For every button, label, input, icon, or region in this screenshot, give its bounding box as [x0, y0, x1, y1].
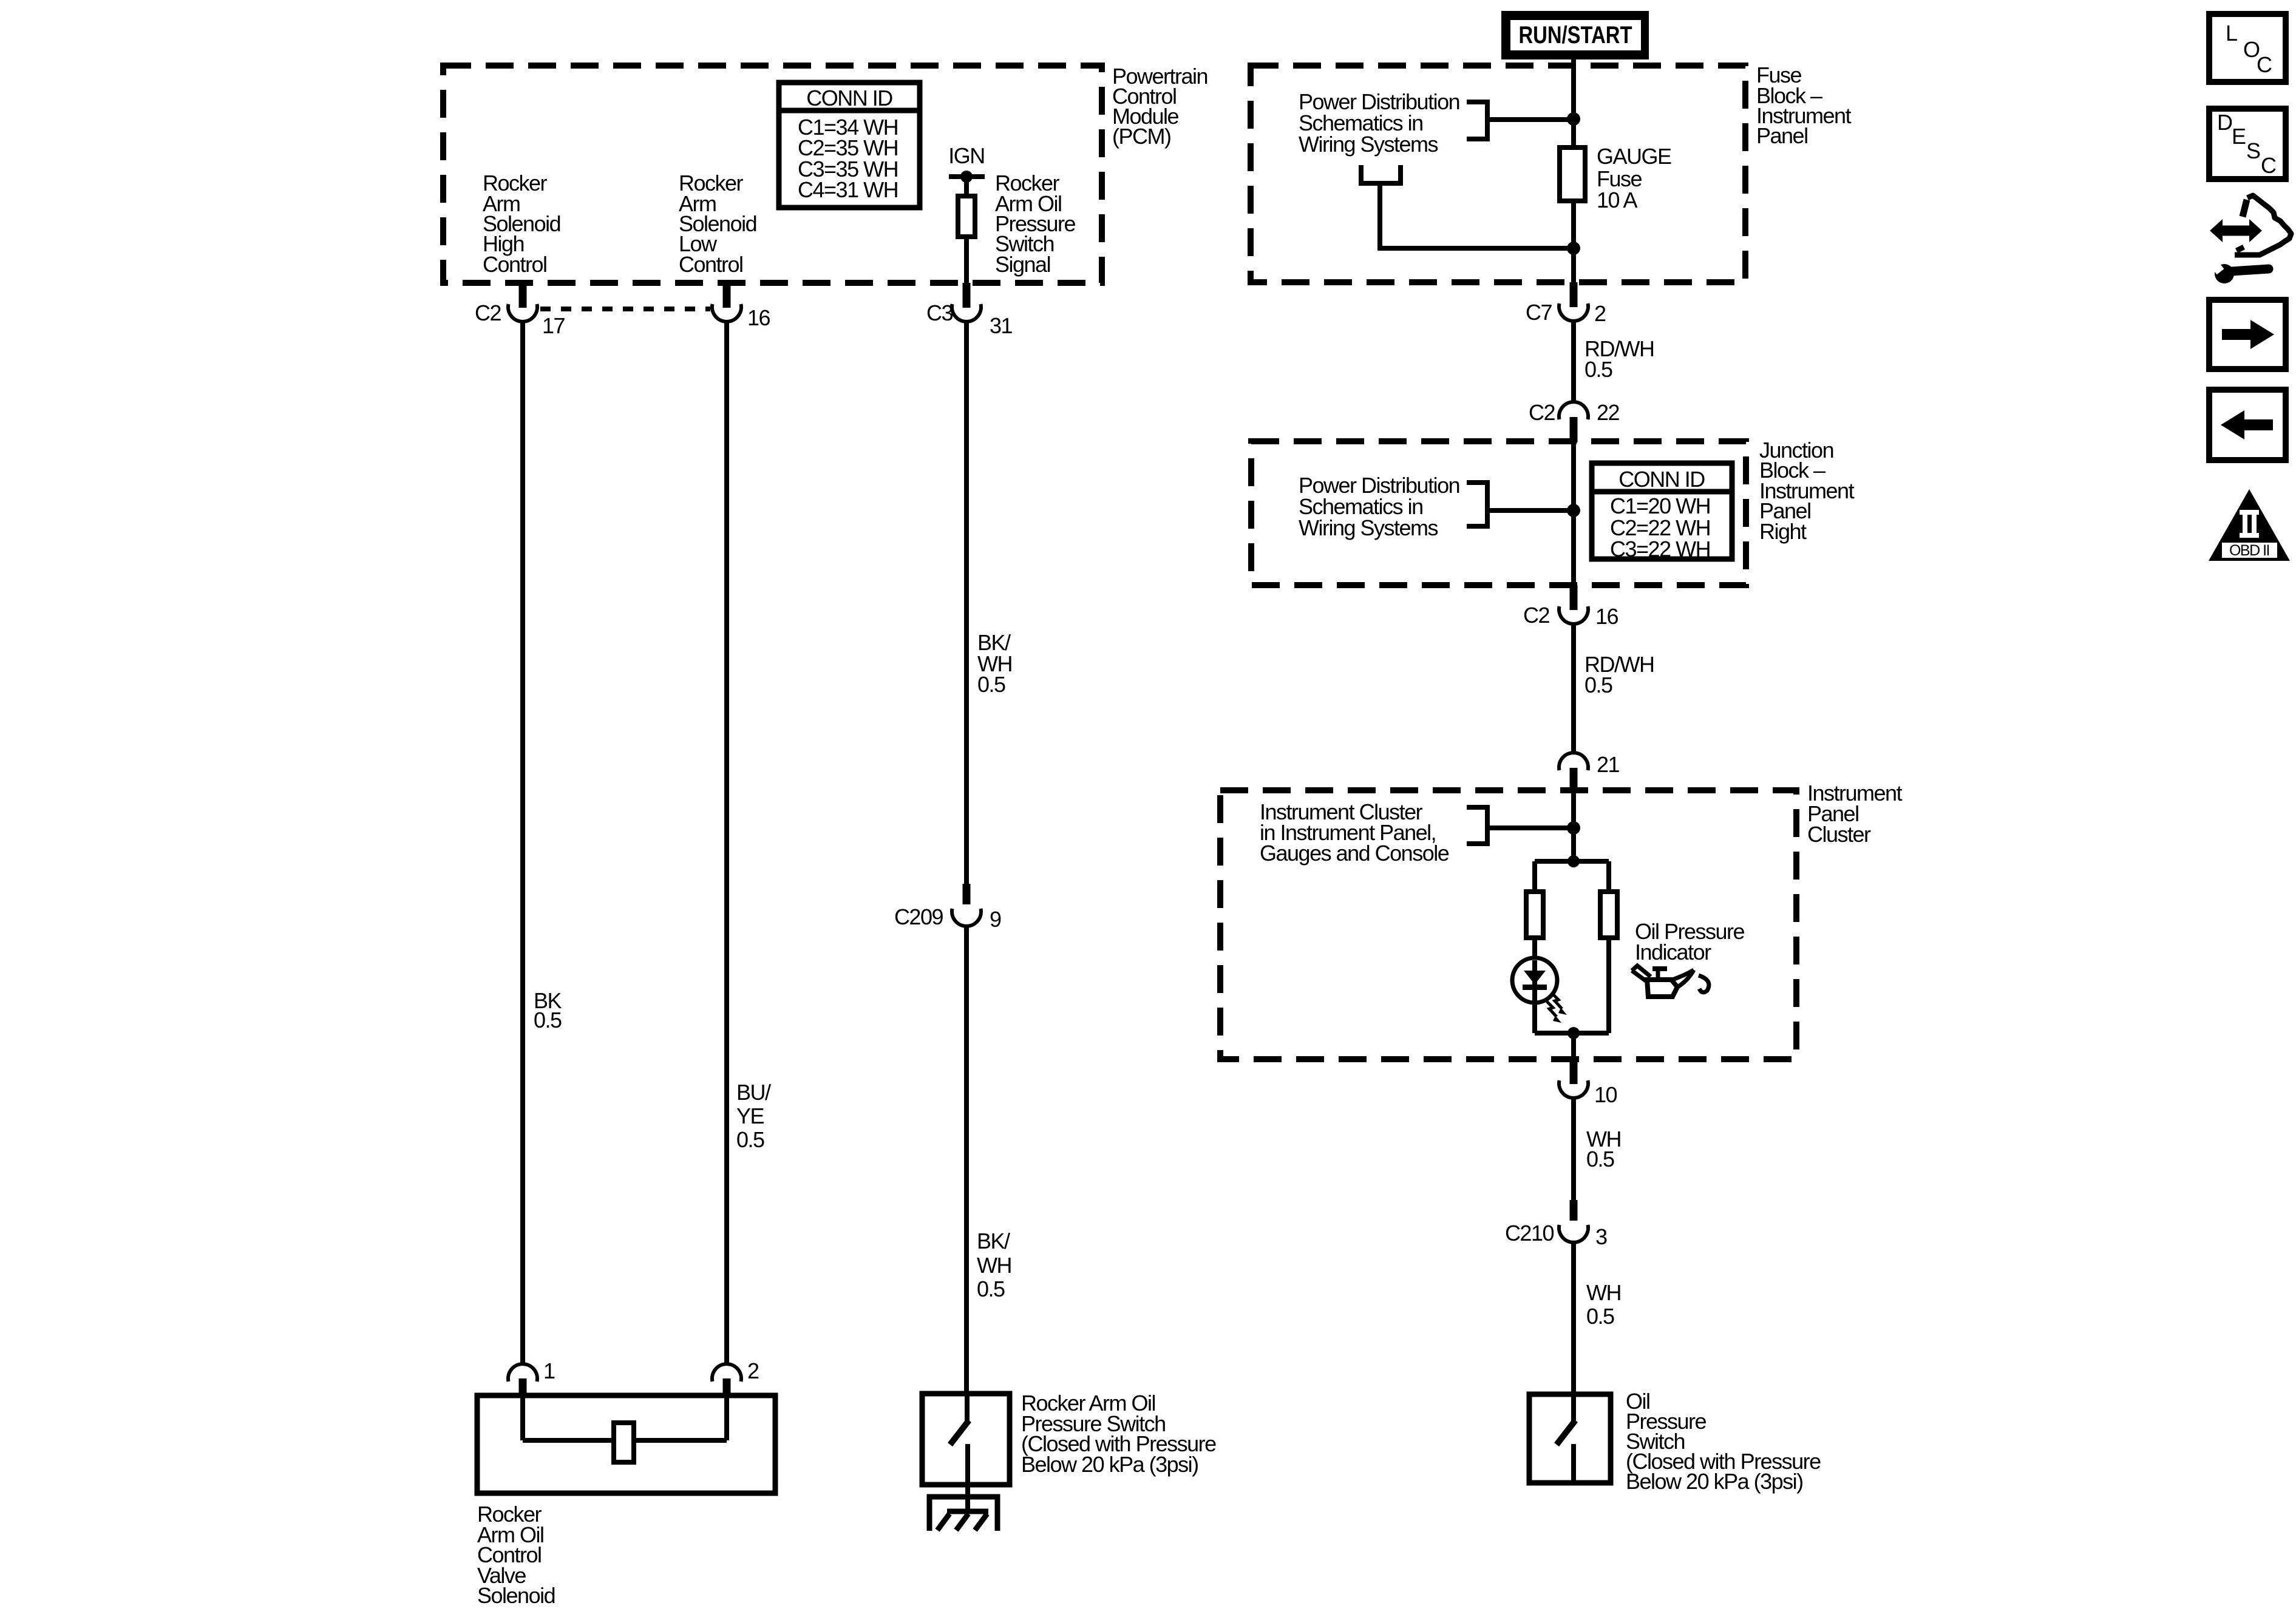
- svg-text:2: 2: [747, 1358, 759, 1383]
- svg-text:Indicator: Indicator: [1635, 940, 1711, 964]
- svg-text:22: 22: [1597, 400, 1620, 425]
- svg-text:C209: C209: [894, 904, 943, 929]
- switch lower contact lead to ground: [965, 1444, 970, 1511]
- connector pin 2 (solenoid): [712, 1364, 741, 1381]
- LED light arrows: [1552, 994, 1562, 1009]
- svg-text:RUN/START: RUN/START: [1519, 21, 1632, 49]
- diagnostic tool icon (arrow, part outline, wrench): [2221, 226, 2252, 236]
- svg-text:WH: WH: [977, 1253, 1011, 1278]
- svg-text:17: 17: [542, 313, 565, 338]
- svg-text:IGN: IGN: [948, 143, 985, 168]
- svg-text:Right: Right: [1759, 519, 1807, 544]
- svg-text:2: 2: [1594, 301, 1606, 326]
- svg-text:0.5: 0.5: [534, 1008, 562, 1032]
- junction node (cluster feed): [1567, 821, 1580, 835]
- svg-text:Solenoid: Solenoid: [477, 1583, 555, 1608]
- junction node (junction block): [1567, 504, 1580, 517]
- wire through junction block: [1571, 442, 1576, 585]
- solenoid coil element: [614, 1423, 634, 1462]
- svg-text:31: 31: [990, 313, 1013, 338]
- connector C3 pin 31 (PCM): [963, 283, 971, 308]
- connector pin 10 (cluster bottom): [1570, 1059, 1578, 1084]
- svg-text:(PCM): (PCM): [1112, 124, 1170, 149]
- wire from RUN/START into fuse block: [1571, 59, 1576, 147]
- solenoid internal wire pin1: [520, 1397, 525, 1440]
- Oil Pressure Switch box: [1529, 1394, 1611, 1483]
- svg-text:L: L: [2226, 21, 2237, 46]
- lamp network bottom bar: [1535, 1031, 1609, 1036]
- svg-text:BU/: BU/: [736, 1080, 771, 1105]
- wire bottom bar to connector 10: [1571, 1033, 1576, 1059]
- ground symbol: [929, 1497, 997, 1531]
- svg-text:3: 3: [1595, 1224, 1607, 1249]
- wire into lamp network: [1571, 792, 1576, 861]
- solenoid internal wire pin2: [724, 1397, 729, 1440]
- wire BK/WH from C209 to pressure switch: [964, 926, 969, 1395]
- Junction Block - Instrument Panel Right dashed box: [1251, 441, 1746, 585]
- svg-text:C210: C210: [1505, 1221, 1554, 1246]
- solenoid internal horizontal wire: [523, 1438, 727, 1443]
- svg-text:Signal: Signal: [995, 252, 1050, 277]
- wire WH connector10 to C210: [1571, 1097, 1576, 1200]
- Fuse Block - Instrument Panel dashed box: [1251, 66, 1745, 282]
- CONN ID table (PCM): [779, 83, 920, 208]
- CONN ID table (junction block): [1592, 463, 1732, 559]
- svg-text:C3=22 WH: C3=22 WH: [1610, 537, 1710, 561]
- svg-text:OBD II: OBD II: [2229, 542, 2269, 559]
- switch top contact lead (oil pressure switch): [1571, 1394, 1576, 1421]
- svg-text:Cluster: Cluster: [1807, 822, 1871, 847]
- svg-text:Below 20 kPa (3psi): Below 20 kPa (3psi): [1626, 1469, 1803, 1494]
- connector C7 pin 2: [1570, 282, 1578, 307]
- svg-text:Gauges and Console: Gauges and Console: [1260, 841, 1449, 866]
- wire BK from C2-17 to solenoid pin 1: [520, 321, 525, 1365]
- connector C2 pin 22 (junction block): [1559, 402, 1588, 419]
- svg-text:Panel: Panel: [1756, 123, 1808, 148]
- bracket to note (fuse block upper): [1467, 102, 1487, 139]
- bracket to note (cluster): [1467, 807, 1487, 844]
- switch blade (oil pressure switch): [1557, 1420, 1575, 1445]
- LED diode symbol: [1532, 960, 1537, 1002]
- svg-text:16: 16: [747, 305, 770, 330]
- svg-text:S: S: [2246, 138, 2260, 163]
- junction node below fuse: [1567, 242, 1580, 255]
- wire RD/WH C7 to junction block: [1571, 320, 1576, 402]
- resistor inside PCM (switch signal pull-up): [964, 177, 969, 196]
- svg-text:16: 16: [1595, 604, 1618, 629]
- svg-text:C1=20 WH: C1=20 WH: [1610, 493, 1710, 518]
- connector pin 21 (cluster): [1559, 753, 1588, 770]
- svg-text:0.5: 0.5: [1586, 1147, 1614, 1171]
- svg-text:0.5: 0.5: [736, 1127, 764, 1152]
- svg-text:Wiring Systems: Wiring Systems: [1299, 132, 1438, 157]
- junction node above fuse: [1567, 112, 1580, 126]
- svg-text:GAUGE: GAUGE: [1597, 144, 1671, 169]
- power feed RUN/START box: [1501, 11, 1649, 59]
- svg-text:0.5: 0.5: [977, 672, 1005, 697]
- LOC icon box: [2209, 14, 2286, 82]
- LED indicator (circle): [1512, 958, 1557, 1003]
- svg-text:Control: Control: [679, 252, 743, 277]
- bracket under note (fuse block lower): [1361, 165, 1401, 183]
- wire BU/YE from C2-16 to solenoid pin 2: [724, 321, 729, 1365]
- connector pin 1 (solenoid): [508, 1364, 537, 1381]
- left branch resistor: [1532, 861, 1537, 892]
- svg-text:YE: YE: [736, 1103, 764, 1128]
- Powertrain Control Module (PCM) dashed box: [443, 66, 1102, 283]
- bracket to note (junction block): [1467, 483, 1487, 526]
- oil can icon: [1632, 966, 1651, 977]
- svg-text:C4=31 WH: C4=31 WH: [798, 177, 898, 202]
- svg-text:9: 9: [990, 907, 1001, 932]
- connector C2 pin 16 (junction block): [1570, 585, 1578, 610]
- svg-text:CONN ID: CONN ID: [806, 86, 892, 110]
- svg-text:C2: C2: [475, 300, 501, 325]
- svg-text:BK/: BK/: [977, 1229, 1010, 1253]
- svg-text:C3: C3: [926, 300, 953, 325]
- DESC icon box: [2209, 109, 2286, 179]
- switch blade: [950, 1420, 969, 1445]
- switch top contact lead: [965, 1394, 970, 1421]
- connector C209 pin 9: [963, 884, 971, 904]
- back arrow icon box: [2209, 390, 2286, 460]
- forward arrow icon box: [2209, 300, 2286, 369]
- svg-text:0.5: 0.5: [1584, 673, 1612, 697]
- svg-text:D: D: [2217, 110, 2232, 135]
- svg-text:C: C: [2261, 153, 2276, 178]
- Rocker Arm Oil Pressure Switch box: [922, 1394, 1010, 1485]
- svg-text:E: E: [2232, 124, 2246, 149]
- dotted tie line between C2 connectors: [540, 307, 710, 311]
- OBD II icon triangle: [2209, 489, 2290, 561]
- node IGN tap: [949, 174, 985, 179]
- svg-text:0.5: 0.5: [1586, 1304, 1614, 1329]
- wire RD/WH junction block to cluster: [1571, 623, 1576, 753]
- svg-text:Below 20 kPa (3psi): Below 20 kPa (3psi): [1021, 1452, 1198, 1477]
- svg-text:CONN ID: CONN ID: [1618, 467, 1705, 492]
- svg-text:0.5: 0.5: [977, 1276, 1005, 1301]
- connector C2 pin 17 (PCM): [519, 283, 527, 308]
- Instrument Panel Cluster dashed box: [1220, 790, 1796, 1059]
- lamp network top bar: [1535, 859, 1609, 864]
- svg-text:C2: C2: [1523, 603, 1549, 628]
- svg-text:10: 10: [1594, 1082, 1617, 1107]
- wire WH C210 to oil pressure switch: [1571, 1242, 1576, 1395]
- svg-text:Wiring Systems: Wiring Systems: [1299, 515, 1438, 540]
- connector C2 pin 16 (PCM): [723, 283, 731, 308]
- fuse GAUGE 10 A: [1560, 147, 1585, 201]
- connector C210 pin 3: [1570, 1200, 1578, 1221]
- svg-text:21: 21: [1597, 752, 1620, 777]
- svg-text:C7: C7: [1526, 300, 1552, 325]
- right branch resistor: [1606, 861, 1611, 892]
- svg-text:C: C: [2257, 52, 2272, 77]
- switch lower contact lead (oil pressure switch): [1571, 1444, 1576, 1483]
- svg-text:C2: C2: [1529, 400, 1555, 425]
- svg-text:Control: Control: [483, 252, 547, 277]
- Rocker Arm Oil Control Valve Solenoid box: [477, 1395, 775, 1493]
- svg-text:1: 1: [543, 1358, 555, 1383]
- wire BK/WH from C3-31 to C209: [964, 321, 969, 884]
- svg-text:10 A: 10 A: [1597, 188, 1638, 212]
- wire LED to bottom bar: [1532, 1002, 1537, 1033]
- svg-text:0.5: 0.5: [1584, 357, 1612, 382]
- svg-text:WH: WH: [1586, 1280, 1621, 1305]
